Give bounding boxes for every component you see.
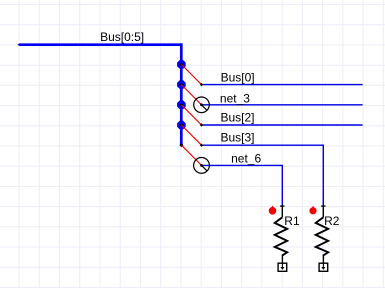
bus ripper diagonal to Bus[2] — [181, 105, 201, 125]
wire Bus[3] to R2 — [200, 144, 323, 206]
bus Bus[0:5] — [17, 43, 182, 145]
svg-text:Bus[0:5]: Bus[0:5] — [100, 30, 144, 44]
ground below R1 — [278, 263, 287, 271]
bus tap node 4 — [177, 121, 186, 130]
bus ripper diagonal to net_6 — [182, 145, 202, 165]
label Bus[0] — [221, 71, 255, 85]
svg-text:Bus[2]: Bus[2] — [221, 111, 255, 125]
label net_3 — [220, 91, 250, 105]
ground below R2 — [319, 263, 328, 271]
bus ripper diagonal to net_3 — [181, 85, 201, 105]
svg-text:Bus[3]: Bus[3] — [221, 131, 255, 145]
svg-text:R2: R2 — [324, 214, 340, 228]
label R2 — [324, 214, 340, 228]
bus ripper diagonal to Bus[0] — [181, 64, 201, 84]
svg-text:net_3: net_3 — [220, 91, 250, 105]
svg-text:net_6: net_6 — [231, 152, 261, 166]
bus end node — [179, 143, 183, 147]
svg-text:R1: R1 — [284, 214, 300, 228]
bus tap node 1 — [177, 60, 186, 69]
bus tap node 2 — [177, 80, 186, 89]
label R1 — [284, 214, 300, 228]
wire net_6 to R1 — [202, 165, 283, 205]
red probe dot at R1 — [269, 206, 277, 215]
net_6 open-node circle — [194, 158, 210, 174]
resistor R2 — [316, 205, 329, 263]
label Bus[2] — [221, 111, 255, 125]
label net_6 — [231, 152, 261, 166]
svg-text:Bus[0]: Bus[0] — [221, 71, 255, 85]
label Bus[0:5] — [100, 30, 144, 44]
wire Bus[2] — [200, 123, 363, 126]
net_3 open-node circle — [194, 97, 210, 113]
label Bus[3] — [221, 131, 255, 145]
resistor R1 — [275, 205, 288, 263]
bus ripper diagonal to Bus[3] — [181, 125, 201, 145]
wire Bus[0] — [200, 83, 363, 86]
red probe dot at R2 — [309, 206, 316, 215]
wire net_3 — [202, 104, 363, 106]
bus tap node 3 — [177, 101, 186, 110]
